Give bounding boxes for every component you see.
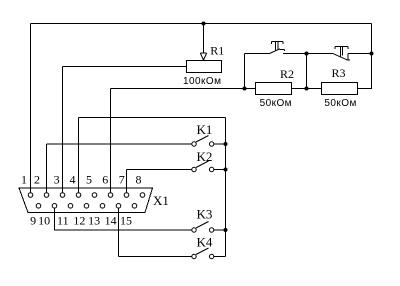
switch K1 (192, 142, 196, 146)
svg-text:1: 1 (21, 173, 27, 187)
connector X1 pin 3 (60, 193, 65, 198)
svg-text:100кОм: 100кОм (183, 76, 221, 87)
svg-text:50кОм: 50кОм (324, 98, 356, 109)
connector X1 pin 14 (116, 204, 121, 209)
svg-text:3: 3 (54, 173, 60, 187)
svg-text:13: 13 (88, 214, 100, 228)
svg-text:11: 11 (57, 214, 69, 228)
wire R1 wiper stem (203, 24, 205, 54)
connector X1 pin 6 (108, 193, 113, 198)
connector X1 pin 11 (68, 204, 73, 209)
wire pin1 vertical (30, 24, 32, 193)
node right junction dot (370, 52, 374, 56)
node K2 junction dot (224, 168, 228, 172)
svg-text:X1: X1 (153, 193, 169, 208)
connector X1 pin 12 (84, 204, 89, 209)
node K3 junction dot (224, 228, 228, 232)
svg-text:R1: R1 (210, 44, 224, 58)
switch K3 (192, 228, 196, 232)
resistor R1 wiper arrow (200, 52, 206, 54)
connector X1 body (19, 188, 153, 213)
pushbutton SB2 actuator (335, 47, 348, 58)
svg-text:K4: K4 (197, 235, 213, 250)
svg-text:6: 6 (102, 173, 108, 187)
connector X1 pin 2 (44, 193, 49, 198)
connector X1 pin 4 (76, 193, 81, 198)
svg-text:14: 14 (105, 214, 117, 228)
connector X1 pin 15 (132, 204, 137, 209)
node K1 junction dot (224, 142, 228, 146)
wire K1 from pin2 (47, 144, 192, 192)
wire K4 from pin14 (119, 209, 192, 257)
switch K4 (192, 254, 196, 258)
wire left vertical of button loop (244, 54, 246, 89)
svg-text:2: 2 (34, 173, 40, 187)
connector X1 pin 5 (92, 193, 97, 198)
resistor R1 body (187, 61, 222, 73)
svg-text:50кОм: 50кОм (260, 98, 292, 109)
svg-text:9: 9 (30, 214, 36, 228)
wire bottom rail from pin6 to R2 left node (111, 89, 245, 193)
svg-text:12: 12 (73, 214, 85, 228)
node R2 left junction dot (243, 87, 247, 91)
svg-text:5: 5 (86, 173, 92, 187)
wire K3 from pin10 (55, 209, 192, 230)
switch K2 (192, 167, 196, 171)
wire R1 left terminal to pin3 (63, 67, 187, 193)
svg-text:15: 15 (120, 214, 132, 228)
wire pin4 to switch rail (79, 118, 226, 193)
pushbutton SB1 contact (270, 49, 281, 54)
wire right vertical down to R3 right terminal (358, 24, 372, 89)
connector X1 pin 10 (52, 204, 57, 209)
node mid junction dot bottom (305, 87, 309, 91)
wire mid vertical between R2 and R3 (306, 54, 308, 89)
svg-text:K2: K2 (197, 149, 213, 164)
svg-text:R2: R2 (280, 67, 294, 81)
wire switch rail vertical (225, 118, 227, 257)
resistor R3 body (322, 83, 358, 95)
wire button bus segments (245, 53, 372, 55)
wire R2 stubs (245, 88, 307, 90)
connector X1 pin 8 (140, 193, 145, 198)
svg-text:K1: K1 (197, 122, 213, 137)
svg-text:R3: R3 (332, 66, 346, 80)
resistor R2 body (256, 83, 292, 95)
svg-text:10: 10 (38, 214, 50, 228)
wire top bus from pin1 to right vertical (31, 23, 372, 25)
svg-text:8: 8 (136, 173, 142, 187)
wire K2 from pin7 (127, 170, 192, 193)
svg-text:4: 4 (70, 173, 76, 187)
svg-text:K3: K3 (197, 207, 213, 222)
node mid junction dot top (305, 52, 309, 56)
node wiper junction dot (202, 22, 206, 26)
pushbutton SB2 contact (334, 54, 348, 60)
pushbutton SB1 actuator (272, 42, 283, 51)
wire R3 left stub (307, 88, 322, 90)
connector X1 pin 13 (100, 204, 105, 209)
connector X1 pin 9 (36, 204, 41, 209)
connector X1 pin 1 (28, 193, 33, 198)
svg-text:7: 7 (119, 173, 125, 187)
connector X1 pin 7 (124, 193, 129, 198)
